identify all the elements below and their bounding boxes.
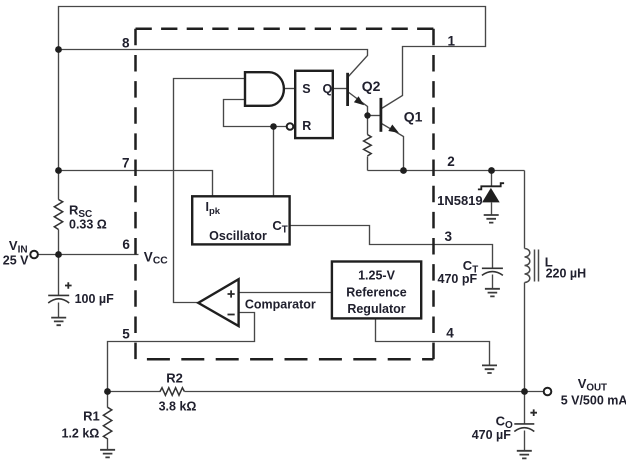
svg-text:1.25-V: 1.25-V: [358, 268, 395, 282]
svg-text:S: S: [302, 82, 310, 96]
svg-text:Regulator: Regulator: [347, 302, 405, 316]
svg-text:1N5819: 1N5819: [437, 193, 483, 208]
svg-text:4: 4: [446, 326, 454, 341]
svg-text:R: R: [302, 119, 311, 133]
svg-text:5 V/500 mA: 5 V/500 mA: [561, 394, 626, 408]
svg-text:Q: Q: [323, 82, 333, 96]
svg-text:3: 3: [445, 229, 453, 244]
svg-text:8: 8: [122, 36, 130, 51]
svg-text:220 µH: 220 µH: [546, 266, 587, 280]
svg-text:Q2: Q2: [362, 78, 381, 94]
svg-text:R2: R2: [166, 370, 183, 385]
svg-text:R1: R1: [83, 408, 100, 423]
svg-text:2: 2: [447, 154, 455, 169]
svg-text:0.33 Ω: 0.33 Ω: [69, 218, 107, 232]
svg-text:1: 1: [448, 34, 456, 49]
svg-text:470 µF: 470 µF: [472, 428, 512, 442]
svg-text:100 µF: 100 µF: [75, 292, 115, 306]
svg-text:3.8 kΩ: 3.8 kΩ: [159, 400, 197, 414]
svg-text:6: 6: [122, 237, 130, 252]
svg-text:470 pF: 470 pF: [438, 272, 478, 286]
svg-text:Oscillator: Oscillator: [209, 229, 267, 243]
svg-text:Q1: Q1: [404, 109, 423, 125]
svg-text:7: 7: [122, 156, 130, 171]
svg-text:1.2 kΩ: 1.2 kΩ: [62, 427, 100, 441]
svg-text:Comparator: Comparator: [245, 298, 316, 312]
svg-text:5: 5: [122, 326, 130, 341]
svg-text:Reference: Reference: [346, 285, 406, 299]
svg-text:25 V: 25 V: [3, 253, 29, 267]
